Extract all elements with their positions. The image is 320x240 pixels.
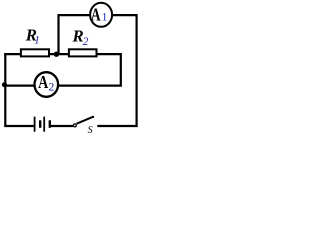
svg-text:1: 1	[102, 10, 108, 24]
svg-text:1: 1	[34, 33, 40, 47]
svg-text:2: 2	[83, 36, 89, 48]
svg-text:S: S	[88, 125, 93, 135]
svg-text:A: A	[38, 74, 49, 93]
svg-text:2: 2	[48, 80, 54, 94]
svg-text:A: A	[91, 6, 101, 25]
